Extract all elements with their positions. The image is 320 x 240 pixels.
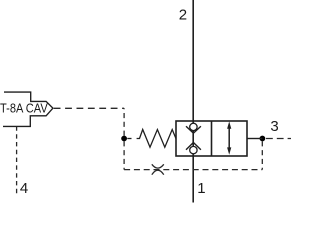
svg-text:2: 2: [179, 6, 187, 23]
svg-text:3: 3: [270, 118, 278, 135]
svg-text:4: 4: [20, 180, 28, 197]
svg-text:T-8A CAV: T-8A CAV: [0, 101, 48, 115]
svg-text:1: 1: [197, 180, 205, 197]
